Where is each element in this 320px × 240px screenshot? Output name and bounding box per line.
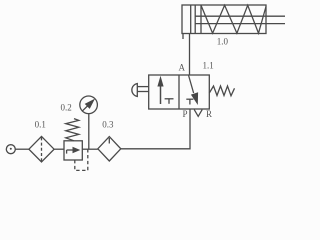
svg-text:0.3: 0.3 <box>102 119 114 129</box>
cylinder port stub <box>182 34 184 40</box>
cylinder 1.0 body <box>182 5 266 34</box>
wire regulator to lubricator <box>82 148 98 150</box>
lubricator 0.3 <box>98 137 121 161</box>
svg-text:1.0: 1.0 <box>217 36 229 46</box>
wire filter to regulator <box>54 148 64 150</box>
svg-text:P: P <box>183 109 188 119</box>
pressure gauge <box>80 96 98 114</box>
wire valve A to cylinder <box>189 34 191 76</box>
regulator 0.2 <box>64 141 82 160</box>
regulator pilot dashed line <box>75 149 88 170</box>
svg-text:0.2: 0.2 <box>61 103 72 113</box>
gauge stem wire <box>88 114 90 150</box>
valve left box blocked port T <box>165 99 174 104</box>
valve push-button actuator <box>132 84 149 97</box>
filter 0.1 <box>29 136 54 162</box>
valve left box flow arrow <box>157 76 163 104</box>
regulator spring <box>66 119 79 141</box>
svg-text:0.1: 0.1 <box>35 120 46 130</box>
exhaust vent V at R <box>194 110 202 117</box>
valve return spring <box>209 86 234 96</box>
cylinder return spring <box>201 5 266 33</box>
wire source to filter <box>15 148 29 150</box>
cylinder piston <box>191 5 196 34</box>
svg-text:R: R <box>206 109 212 119</box>
svg-text:1.1: 1.1 <box>203 60 214 70</box>
valve right box exhaust arrow <box>189 76 199 106</box>
svg-text:A: A <box>179 62 186 72</box>
cylinder piston rod <box>195 16 285 23</box>
supply wire to valve P <box>121 109 190 149</box>
compressed air source <box>6 145 15 154</box>
valve right box blocked port T at P <box>186 99 193 104</box>
valve 1.1 body <box>149 75 210 109</box>
